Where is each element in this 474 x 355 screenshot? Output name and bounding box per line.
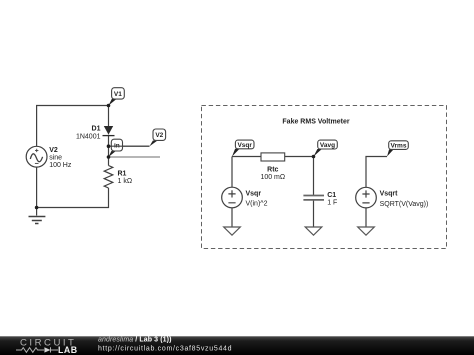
svg-text:100 Hz: 100 Hz: [49, 162, 72, 169]
svg-text:100 mΩ: 100 mΩ: [260, 174, 285, 181]
svg-text:D1: D1: [92, 126, 101, 133]
svg-text:SQRT(V(Vavg)): SQRT(V(Vavg)): [380, 201, 429, 208]
svg-text:1 F: 1 F: [327, 199, 337, 206]
svg-text:Vsqrt: Vsqrt: [380, 191, 399, 198]
svg-text:C1: C1: [327, 192, 336, 199]
svg-text:Vsqr: Vsqr: [246, 191, 262, 198]
svg-text:Rtc: Rtc: [267, 167, 278, 174]
svg-text:1N4001: 1N4001: [76, 133, 101, 140]
svg-text:V(in)^2: V(in)^2: [246, 201, 268, 208]
svg-text:V2: V2: [155, 132, 163, 139]
svg-text:LAB: LAB: [58, 345, 78, 355]
svg-text:sine: sine: [49, 155, 62, 162]
svg-text:Vsqr: Vsqr: [237, 142, 252, 149]
svg-text:V1: V1: [114, 91, 122, 98]
svg-text:V2: V2: [49, 147, 58, 154]
svg-text:http://circuitlab.com/c3af85vz: http://circuitlab.com/c3af85vzu544d: [98, 346, 232, 353]
svg-text:Vrms: Vrms: [391, 143, 407, 150]
svg-text:andreslima / Lab 3 (1)): andreslima / Lab 3 (1)): [98, 337, 172, 344]
svg-text:Vavg: Vavg: [320, 142, 335, 149]
svg-text:Fake RMS Voltmeter: Fake RMS Voltmeter: [282, 118, 349, 125]
svg-text:1 kΩ: 1 kΩ: [118, 178, 133, 185]
svg-text:R1: R1: [118, 171, 127, 178]
